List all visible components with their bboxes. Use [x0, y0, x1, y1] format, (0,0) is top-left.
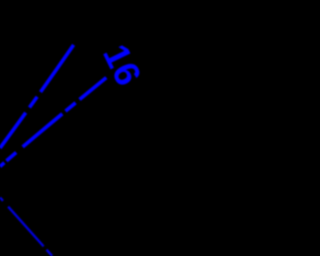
contour L2: [0, 77, 107, 167]
centerline L1: [0, 45, 74, 148]
solid line L4: [0, 198, 52, 256]
